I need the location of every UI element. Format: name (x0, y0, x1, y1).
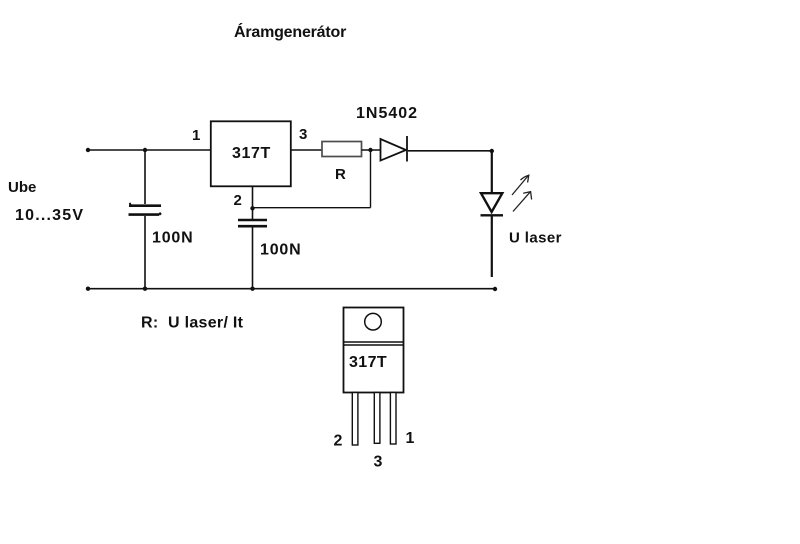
node bottom C2 junction (250, 287, 254, 291)
svg-text:100N: 100N (152, 230, 193, 247)
svg-text:317T: 317T (349, 354, 387, 371)
svg-text:317T: 317T (232, 145, 271, 162)
wire top rail (88, 149, 211, 151)
wire feedback vertical (370, 150, 372, 208)
svg-text:Áramgenerátor: Áramgenerátor (234, 22, 346, 41)
node input terminal (86, 148, 90, 152)
capacitor C2 100N (238, 220, 267, 226)
TO-220 mounting hole (365, 313, 382, 330)
light arrow 1 (512, 175, 529, 195)
wire D1 to laser node (408, 150, 492, 152)
wire C1 branch upper (144, 150, 146, 204)
wire feedback horizontal (253, 207, 371, 209)
wire C2 lower (252, 228, 254, 289)
laser diode D2 (481, 193, 504, 215)
node R/D1/feedback junction (368, 148, 372, 152)
wire laser cathode (491, 215, 493, 277)
svg-text:U laser: U laser (509, 230, 562, 247)
wire bottom rail (88, 288, 495, 290)
wire resistor to node (362, 149, 381, 151)
light arrow 2 (513, 192, 532, 212)
node bottom left terminal (86, 287, 90, 291)
node pin2/C2 junction (250, 206, 254, 210)
regulator U1 317T box (211, 121, 291, 186)
node bottom C1 junction (143, 287, 147, 291)
node junction C1/top rail (143, 148, 147, 152)
TO-220 leg pin1 (390, 393, 396, 445)
svg-text:1N5402: 1N5402 (356, 105, 418, 122)
TO-220 tab line lower (344, 344, 404, 346)
svg-text:2: 2 (234, 192, 242, 209)
svg-text:3: 3 (299, 126, 307, 143)
TO-220 leg pin3 (374, 393, 380, 444)
svg-text:1: 1 (192, 127, 200, 144)
svg-text:Ube: Ube (8, 179, 36, 196)
diode D1 1N5402 (381, 136, 408, 162)
resistor R (322, 142, 362, 157)
node top of laser (490, 149, 494, 153)
wire C1 branch lower (144, 216, 146, 289)
svg-text:10...35V: 10...35V (15, 207, 84, 224)
TO-220 tab line upper (344, 341, 404, 343)
TO-220 package body (344, 308, 404, 393)
svg-text:3: 3 (374, 454, 383, 471)
node bottom right terminal (493, 287, 497, 291)
wire U1 pin2 down (252, 187, 254, 220)
wire laser anode (491, 151, 493, 193)
wire U1 pin3 to resistor (291, 149, 322, 151)
capacitor C1 100N (129, 204, 162, 215)
svg-text:2: 2 (334, 433, 343, 450)
TO-220 leg pin2 (352, 393, 358, 446)
svg-text:1: 1 (406, 430, 415, 447)
svg-text:R: R (335, 166, 346, 183)
svg-text:R: U laser/ It: R: U laser/ It (141, 315, 244, 332)
svg-text:100N: 100N (260, 242, 301, 259)
